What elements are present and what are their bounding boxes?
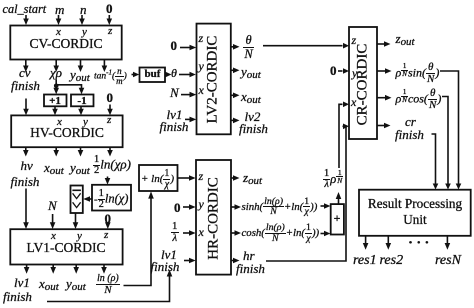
pin x LV1 (51, 231, 56, 242)
wire HR to zout (231, 175, 240, 181)
wire HR to cosh (231, 230, 241, 236)
label half ln chi-rho (93, 155, 131, 177)
pin z CR (352, 34, 357, 46)
label lambda rho (323, 169, 343, 191)
label lv1 HR (161, 248, 177, 261)
wire +1 to HV x (52, 106, 58, 115)
pin z HV (107, 115, 111, 126)
wire RPU to resN (445, 236, 451, 250)
label xout LV2 (241, 90, 261, 106)
wire sin wrap to RPU (440, 71, 461, 190)
title LV1-CORDIC (10, 241, 122, 255)
label lv1 LV2 (167, 108, 183, 121)
label rho sin (396, 62, 440, 85)
wire cr finish wrap to RPU (432, 134, 439, 190)
label finish LV2 (160, 120, 189, 133)
wire lv1 finish to HR (184, 258, 196, 264)
label hv (21, 159, 33, 172)
pin y HR (199, 198, 204, 210)
wire 0 to HV z (107, 105, 113, 116)
label cal_start (3, 3, 47, 15)
label -1 (71, 96, 93, 107)
wire CR to cos (377, 95, 392, 101)
label 0 CR (330, 64, 337, 77)
wire cal_start to CV (23, 15, 29, 25)
block LV1-CORDIC (10, 229, 122, 264)
label ln(rho)/N (96, 274, 120, 296)
title CV-CORDIC (10, 37, 122, 51)
block Result Processing Unit (359, 190, 471, 236)
wire adder up arrow (336, 192, 342, 204)
wire lnrho/N to +ln box (124, 191, 154, 285)
label cosh (242, 223, 320, 244)
pin z LV1 (104, 230, 108, 241)
label zout HR (243, 171, 262, 187)
wire HV to xout (53, 147, 59, 156)
wire LV2 to xout (231, 93, 240, 99)
label finish HR out (236, 262, 265, 275)
block LV2-CORDIC (197, 24, 231, 135)
wire RPU to res1 (363, 236, 369, 250)
title HV-CORDIC (11, 126, 123, 140)
label + adder (331, 212, 343, 224)
label N LV2 (170, 86, 179, 99)
label 0 LV2 (171, 39, 178, 52)
wire HV to half-ln (107, 147, 113, 156)
label res2 (380, 254, 404, 268)
label N LV1 (48, 199, 57, 212)
pin x HR (199, 226, 204, 238)
label 0 top (106, 2, 113, 15)
label +1 (44, 96, 66, 107)
label cv (19, 66, 31, 79)
label rho cos (396, 88, 442, 111)
label finish LV2 out (239, 122, 268, 135)
junction chi-rho node (54, 80, 59, 89)
label finish LV1 (3, 290, 32, 303)
block buf (140, 68, 166, 83)
symbol shifter chevron 1 (73, 193, 81, 198)
block HR-CORDIC (196, 160, 231, 275)
wire buf to theta (166, 72, 172, 78)
wire node to +1 (53, 86, 59, 94)
label finish CV (11, 79, 40, 92)
label finish CR (395, 128, 424, 141)
label xout HV (44, 161, 64, 177)
label yout LV2 (241, 65, 261, 81)
pin x HV (57, 117, 62, 128)
wire LV1 to lv1 (24, 265, 30, 274)
wire sinh to adder (321, 203, 331, 209)
label theta (171, 67, 177, 79)
label zout CR (396, 32, 415, 48)
wire CV z out (102, 60, 108, 73)
wire HV to hv (23, 147, 29, 156)
label 0 LV1 (105, 212, 112, 225)
label yout HV (70, 161, 90, 177)
label finish HV (11, 175, 40, 188)
wire LV2 to theta/N (231, 44, 240, 50)
label +ln(1/chi) (141, 169, 174, 190)
label lv1 (14, 276, 30, 289)
title CR-CORDIC (356, 29, 371, 139)
wire CV to cv (23, 60, 29, 73)
wire node to -1 branch (56, 85, 84, 94)
label xout LV1 (39, 277, 59, 293)
wire lv1 finish bottom route (47, 270, 172, 302)
pin y HV (83, 117, 88, 128)
label dots (408, 236, 433, 251)
pin z LV2 (199, 32, 204, 44)
wire HR to sinh (231, 204, 241, 210)
pin x LV2 (199, 84, 204, 96)
pin z HR (199, 170, 204, 182)
wire LV2 to yout (231, 68, 240, 74)
label m (55, 3, 64, 16)
pin x CV (56, 27, 61, 38)
label hr (243, 249, 255, 262)
label resN (435, 254, 461, 268)
label cr (405, 115, 416, 128)
wire CR to sin (377, 68, 392, 74)
wire HR to hr finish (231, 258, 240, 264)
wire HV to yout (78, 147, 84, 156)
wire shifter to LV1 y (73, 213, 79, 229)
wire n to CV y (79, 15, 85, 25)
wire 0 to HR y (183, 204, 196, 210)
label buf (141, 69, 164, 80)
wire theta/N to CR z (263, 43, 349, 49)
label theta/N out (243, 34, 254, 60)
block CR-CORDIC (349, 27, 377, 139)
block -1/2 ln(chi) (92, 185, 131, 211)
pin y CR (352, 67, 357, 79)
label tan-1(n/m) (94, 67, 127, 86)
wire 0 to CV z (107, 15, 113, 25)
block -1 (71, 95, 94, 107)
wire finish to HV (23, 99, 29, 116)
wire lnbox to shifter (83, 196, 92, 202)
label 0 HR (174, 201, 181, 214)
wire LV1 to xout (50, 265, 56, 274)
block HV-CORDIC (11, 115, 122, 147)
wire -1 to HV y (78, 106, 84, 115)
block +ln(1/chi) (139, 165, 178, 191)
wire cosh to adder (321, 231, 331, 237)
wire finish to LV1 (23, 189, 29, 230)
wire 0 to LV2 z (180, 45, 196, 51)
wire hr finish to CR start (266, 124, 349, 262)
wire theta to LV2 y (179, 72, 196, 78)
title Result Processing Unit (359, 196, 471, 228)
block CV-CORDIC (10, 26, 121, 60)
label yout tan (70, 68, 90, 84)
label sinh (242, 197, 318, 218)
label -1/2 ln chi (94, 189, 128, 211)
label 0 HV (107, 91, 114, 104)
wire tan to buf (132, 72, 140, 78)
wire LV1 to yout (73, 265, 79, 274)
wire half-ln to box (105, 177, 111, 185)
pin z CV (108, 26, 112, 37)
label res1 (353, 254, 377, 268)
wire N to LV1 x (50, 214, 56, 229)
wire RPU to res2 (386, 236, 392, 250)
block adder (331, 204, 344, 234)
label n (80, 3, 87, 16)
wire N to LV2 x (181, 92, 196, 98)
wire cos wrap to RPU (442, 97, 451, 190)
pin x CR (351, 96, 356, 108)
wire CR to zout (377, 41, 391, 47)
block shifter (71, 186, 83, 214)
title HR-CORDIC (206, 164, 221, 274)
label 1/lambda (171, 221, 179, 244)
pin y CV (82, 27, 87, 38)
label yout LV1 (66, 277, 86, 293)
label lv2 (245, 110, 261, 123)
pin y LV2 (199, 60, 204, 72)
wire +ln box to HR z (178, 175, 196, 181)
wire CV to chi-rho (53, 60, 59, 73)
symbol shifter chevron 2 (73, 202, 81, 207)
title LV2-CORDIC (206, 25, 221, 135)
wire CR to cr finish (377, 123, 391, 129)
label chi-rho (50, 66, 62, 79)
label finish HR in (151, 260, 180, 273)
wire 1/lambda to HR x (183, 230, 196, 236)
wire CV to yout (78, 60, 84, 73)
wire 0 to CR y (338, 68, 349, 74)
wire lambda-rho to CR x (339, 102, 349, 169)
block +1 (44, 95, 67, 107)
wire 0 to LV1 z (105, 222, 111, 229)
pin y LV1 (77, 231, 82, 242)
symbol shifter bar (72, 189, 81, 191)
wire m to CV x (56, 15, 62, 25)
wire LV1 to lnrho (101, 265, 107, 274)
wire LV2 to lv2 finish (231, 118, 240, 124)
wire lv1 finish to LV2 (185, 117, 196, 123)
